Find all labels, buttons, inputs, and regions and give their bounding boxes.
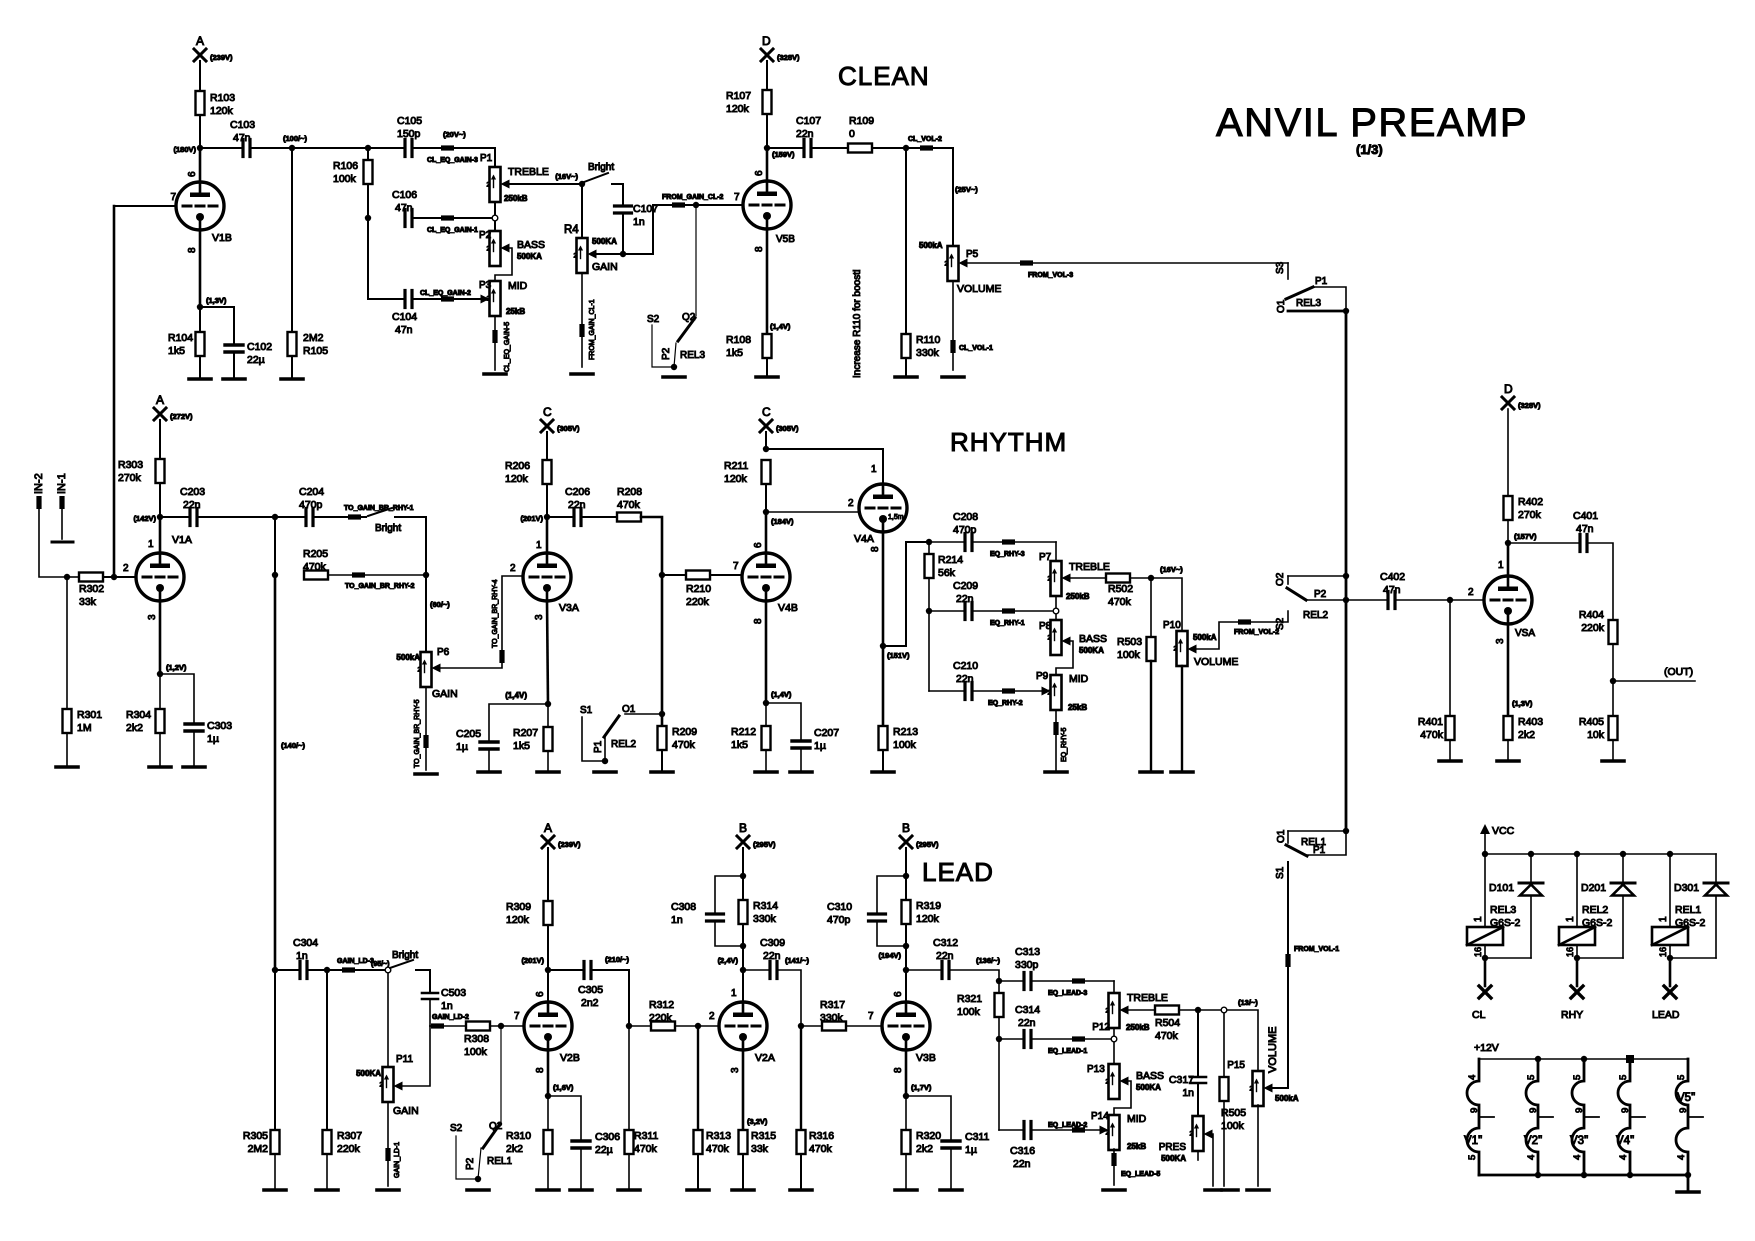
svg-text:2k2: 2k2: [1518, 729, 1535, 741]
svg-text:220k: 220k: [337, 1143, 361, 1155]
resistor R401 470k: [1446, 716, 1455, 740]
wire R504 to P15: [1179, 1010, 1258, 1071]
svg-text:(180V): (180V): [173, 145, 196, 154]
svg-text:6: 6: [753, 542, 764, 548]
potentiometer P6 GAIN 500kA: [421, 652, 432, 687]
ground R307: [316, 1188, 338, 1192]
svg-text:R104: R104: [168, 332, 193, 344]
svg-text:R503: R503: [1117, 636, 1142, 648]
node REL2 O2 on bus: [1343, 573, 1349, 579]
svg-text:REL2: REL2: [1303, 610, 1328, 621]
capacitor C304 1n: [298, 962, 301, 979]
ground R315: [732, 1188, 754, 1192]
wire P3 P1 stack lower rail: [367, 148, 369, 184]
svg-text:(295V): (295V): [753, 840, 776, 849]
svg-text:R321: R321: [957, 993, 982, 1005]
svg-text:47n: 47n: [395, 324, 413, 336]
svg-text:500KA: 500KA: [356, 1069, 381, 1078]
svg-text:470p: 470p: [299, 499, 323, 511]
svg-text:5: 5: [1572, 1075, 1583, 1080]
open node bright (lead): [385, 967, 391, 973]
ground R105: [281, 377, 303, 381]
wire A to R103: [199, 61, 201, 91]
wire R308 to V2B grid: [490, 1025, 524, 1027]
node (1,3V): [197, 304, 203, 310]
ground P6: [415, 772, 437, 776]
node REL3 pole: [1343, 308, 1349, 314]
svg-text:1n: 1n: [671, 914, 683, 926]
node C312 branch (194V): [903, 967, 909, 973]
svg-text:CL_VOL-1: CL_VOL-1: [959, 345, 993, 352]
svg-text:7: 7: [170, 192, 176, 203]
svg-text:(157V): (157V): [1514, 532, 1537, 541]
svg-text:C305: C305: [578, 984, 603, 996]
svg-text:47n: 47n: [1576, 523, 1594, 535]
svg-text:GAIN_LD-3: GAIN_LD-3: [337, 958, 374, 965]
svg-text:2: 2: [1048, 690, 1052, 697]
terminal bar IN-1: [52, 541, 73, 544]
wire pin16 to D201: [1577, 957, 1623, 959]
arrow into P9: [1042, 687, 1051, 696]
node R314 bottom: [740, 943, 746, 949]
svg-text:R307: R307: [337, 1130, 362, 1142]
open node R505 top: [1221, 1007, 1227, 1013]
tube VSA: [1484, 576, 1532, 624]
wire V2A cathode: [742, 1050, 745, 1130]
svg-text:2: 2: [848, 498, 854, 509]
svg-text:1: 1: [148, 539, 154, 550]
wire V3A plate: [546, 517, 549, 553]
wire to P1 top: [494, 148, 496, 167]
svg-text:B: B: [739, 821, 747, 835]
svg-text:500KA: 500KA: [1079, 646, 1104, 655]
svg-text:1µ: 1µ: [207, 733, 219, 745]
svg-text:120k: 120k: [726, 103, 750, 115]
svg-text:22n: 22n: [568, 499, 586, 511]
svg-text:VCC: VCC: [1492, 825, 1515, 837]
svg-text:2: 2: [1468, 587, 1474, 598]
resistor R315 33k: [739, 1130, 748, 1154]
svg-text:2: 2: [123, 563, 129, 574]
svg-text:100k: 100k: [1117, 649, 1141, 661]
svg-text:470k: 470k: [706, 1143, 730, 1155]
svg-text:VOLUME: VOLUME: [1194, 656, 1238, 668]
wire V5B cathode: [766, 229, 769, 334]
capacitor C107 22n: [802, 140, 805, 157]
node (16V~): [579, 181, 585, 187]
svg-text:(140/~): (140/~): [281, 741, 305, 750]
node C317 top: [1195, 1007, 1201, 1013]
ground C102: [223, 377, 245, 381]
node R205 right: [423, 572, 429, 578]
svg-text:R110: R110: [916, 334, 940, 346]
svg-text:4: 4: [1618, 1155, 1629, 1160]
svg-text:C309: C309: [760, 937, 785, 949]
svg-text:2: 2: [510, 563, 516, 574]
VCC arrow: [1484, 832, 1486, 854]
svg-text:220k: 220k: [1581, 622, 1605, 634]
wire FROM_VOL-3 to REL3: [968, 262, 1289, 264]
resistor R208 470k: [581, 516, 617, 518]
svg-text:C503: C503: [441, 987, 466, 999]
svg-text:330k: 330k: [916, 347, 940, 359]
svg-text:C104: C104: [392, 311, 417, 323]
resistor R209 470k: [658, 726, 667, 750]
svg-text:120k: 120k: [210, 105, 234, 117]
svg-text:9: 9: [1469, 1108, 1480, 1113]
svg-text:R214: R214: [938, 554, 963, 566]
node REL3 coil pin16: [1482, 955, 1488, 961]
svg-text:P1: P1: [593, 740, 604, 753]
svg-text:9: 9: [1620, 1108, 1631, 1113]
svg-text:(141/~): (141/~): [785, 956, 809, 965]
bright switch (rhythm): [368, 508, 392, 516]
power node A (top): [194, 49, 206, 61]
svg-text:R209: R209: [672, 726, 697, 738]
svg-text:(272V): (272V): [170, 412, 193, 421]
potentiometer P10 VOLUME 500kA: [1177, 631, 1188, 666]
svg-text:D: D: [1504, 382, 1513, 396]
svg-text:4: 4: [1676, 1155, 1687, 1160]
capacitor C313 330p: [999, 980, 1024, 982]
svg-text:220k: 220k: [686, 596, 710, 608]
diode D301: [1715, 854, 1717, 883]
wire plate node to C107 22n: [767, 147, 804, 149]
wire node to C401: [1508, 542, 1580, 544]
resistor R504 470k: [1155, 1006, 1179, 1015]
svg-text:R404: R404: [1579, 609, 1604, 621]
svg-text:P3: P3: [479, 280, 492, 291]
tube V3B: [882, 1002, 930, 1050]
svg-text:R315: R315: [751, 1130, 776, 1142]
svg-text:BASS: BASS: [1079, 633, 1107, 645]
net tag EQ_LEAD-3: [1031, 980, 1114, 982]
svg-text:P14: P14: [1091, 1111, 1109, 1122]
node (159V): [764, 145, 770, 151]
svg-text:P2: P2: [661, 347, 672, 360]
svg-text:GAIN: GAIN: [432, 688, 458, 700]
wire C317 chain: [1197, 1010, 1199, 1077]
ground P10: [1171, 770, 1193, 774]
svg-text:100k: 100k: [333, 173, 357, 185]
node C309 branch (244V): [740, 967, 746, 973]
wire down to P5: [952, 148, 954, 246]
resistor R211 120k: [762, 460, 771, 484]
net tag TO_GAIN_BR_RHY-1: [313, 516, 366, 518]
wire R208 to corner: [641, 517, 662, 726]
wire R109 to CL_VOL-2 corner: [872, 147, 953, 149]
svg-text:R301: R301: [77, 709, 102, 721]
heater return bus: [1479, 1174, 1688, 1177]
wire R103 to plate node: [199, 115, 201, 148]
svg-text:1n: 1n: [441, 1000, 453, 1012]
svg-text:R504: R504: [1155, 1017, 1180, 1029]
resistor R210 220k: [686, 571, 710, 580]
wire V4B plate: [765, 512, 768, 553]
svg-text:CL_EQ_GAIN-5: CL_EQ_GAIN-5: [504, 322, 511, 372]
wire A to R309: [547, 848, 549, 901]
svg-text:120k: 120k: [724, 473, 748, 485]
svg-text:R108: R108: [726, 334, 751, 346]
wire to tone stack: [883, 542, 929, 646]
resistor R404 220k: [1609, 620, 1618, 644]
capacitor C305 2n2: [548, 969, 584, 971]
svg-text:P13: P13: [1087, 1064, 1105, 1075]
svg-text:S1: S1: [1275, 866, 1286, 879]
svg-text:2: 2: [1190, 1131, 1194, 1138]
svg-text:500kA: 500kA: [1193, 633, 1217, 642]
resistor R503 100k: [1150, 578, 1152, 637]
node REL1 coil pin16: [1667, 955, 1673, 961]
wire B to node: [905, 848, 907, 876]
svg-text:1: 1: [536, 540, 542, 551]
ground R212: [755, 770, 777, 774]
potentiometer P15 VOLUME 500kA: [1253, 1071, 1264, 1106]
wire vertical rail to V1A grid: [113, 206, 116, 577]
svg-text:REL2: REL2: [1582, 904, 1608, 916]
svg-text:R319: R319: [916, 900, 941, 912]
svg-text:8: 8: [870, 546, 881, 552]
wire grid node to V5B: [696, 204, 743, 206]
ground R104: [189, 377, 211, 381]
svg-text:25kB: 25kB: [1068, 703, 1087, 712]
svg-text:C106: C106: [392, 189, 417, 201]
svg-text:2: 2: [1174, 646, 1178, 653]
resistor R310 2k2: [547, 1096, 549, 1130]
svg-text:(16V~): (16V~): [555, 172, 578, 181]
svg-text:Bright: Bright: [588, 162, 614, 173]
svg-text:16: 16: [1473, 947, 1483, 957]
svg-text:C306: C306: [595, 1131, 620, 1143]
svg-text:C: C: [543, 405, 552, 419]
svg-text:R405: R405: [1579, 716, 1604, 728]
svg-text:(201V): (201V): [521, 956, 544, 965]
svg-text:C317: C317: [1169, 1074, 1194, 1086]
svg-text:(328V): (328V): [777, 53, 800, 62]
wire to C205: [489, 704, 548, 742]
svg-text:47n: 47n: [233, 132, 251, 144]
potentiometer P12 TREBLE 250kB: [1109, 993, 1120, 1028]
svg-text:8: 8: [893, 1067, 904, 1073]
wire P10 bottom to ground: [1181, 666, 1183, 772]
resistor R402 270k: [1504, 496, 1513, 520]
resistor R105 2M2: [291, 148, 293, 332]
wire P9 bottom EQ_RHY-5 to ground: [1055, 710, 1057, 772]
svg-text:22n: 22n: [796, 128, 814, 140]
node R401 top: [1447, 597, 1453, 603]
wire down to R311: [628, 1026, 630, 1130]
node V1A grid: [111, 574, 117, 580]
resistor R308 100k: [466, 1022, 490, 1031]
svg-text:(16V~): (16V~): [1160, 565, 1183, 574]
svg-text:(1,3V): (1,3V): [1512, 699, 1533, 708]
wire to V4A plate: [766, 449, 883, 484]
VCC bus: [1485, 853, 1716, 855]
svg-text:250kB: 250kB: [1126, 1023, 1150, 1032]
net tag CL_EQ_GAIN-2: [412, 298, 489, 300]
wire R214 node down to C210: [928, 611, 930, 691]
svg-text:(239V): (239V): [210, 53, 233, 62]
svg-text:R211: R211: [724, 460, 748, 472]
svg-text:470p: 470p: [827, 914, 851, 926]
svg-text:250kB: 250kB: [504, 194, 528, 203]
node (157V): [1505, 540, 1511, 546]
svg-text:500kA: 500kA: [396, 653, 420, 662]
svg-text:LEAD: LEAD: [1652, 1009, 1680, 1021]
svg-text:100k: 100k: [464, 1046, 488, 1058]
svg-text:(1,2V): (1,2V): [166, 663, 187, 672]
svg-text:470p: 470p: [953, 524, 977, 536]
svg-text:O1: O1: [1276, 299, 1287, 313]
wire R107 to plate node: [766, 114, 768, 148]
svg-text:22n: 22n: [1013, 1158, 1031, 1170]
svg-text:REL2: REL2: [611, 739, 636, 750]
open node P1-P2 junction: [494, 202, 496, 231]
svg-text:3: 3: [730, 1067, 741, 1073]
svg-text:2: 2: [1106, 1079, 1110, 1086]
svg-text:C401: C401: [1573, 510, 1598, 522]
svg-text:BASS: BASS: [517, 239, 545, 251]
svg-text:C103: C103: [230, 119, 255, 131]
node OUT: [1610, 678, 1616, 684]
svg-text:(159V): (159V): [772, 150, 795, 159]
wire P1 wiper to bright node: [510, 183, 583, 185]
node P2 grid feed: [620, 251, 626, 257]
svg-text:MID: MID: [508, 280, 528, 292]
svg-text:3: 3: [534, 614, 545, 620]
wire V3B cathode: [905, 1050, 908, 1096]
net tag TO_GAIN_BR_RHY-2: [328, 574, 426, 576]
wire C103 to node 100V: [250, 147, 292, 149]
wire P10 wiper FROM_VOL-2 to REL2: [1197, 611, 1289, 649]
tube V3A: [523, 553, 571, 601]
svg-text:MID: MID: [1069, 673, 1089, 685]
svg-text:(60/~): (60/~): [430, 600, 450, 609]
wire V1A plate: [159, 517, 162, 553]
node R312 left: [626, 1023, 632, 1029]
resistor R312 220k: [629, 1025, 651, 1027]
svg-text:R107: R107: [726, 90, 751, 102]
svg-text:D301: D301: [1674, 882, 1699, 894]
capacitor C314 22n: [999, 1038, 1024, 1040]
svg-text:G6S-2: G6S-2: [1675, 917, 1706, 929]
svg-text:(1,4V): (1,4V): [771, 690, 792, 699]
svg-text:S3: S3: [1275, 261, 1286, 274]
svg-text:0: 0: [849, 128, 855, 140]
svg-text:V5B: V5B: [776, 234, 795, 245]
resistor R502 470k: [1106, 574, 1130, 583]
wire down to C316: [998, 1039, 1000, 1130]
power node A (V2B): [542, 836, 554, 848]
svg-text:C208: C208: [953, 511, 978, 523]
ground R311: [618, 1188, 640, 1192]
ground R401: [1439, 759, 1461, 763]
svg-text:C107: C107: [796, 115, 821, 127]
wire B to node: [742, 848, 744, 876]
svg-text:1µ: 1µ: [814, 740, 826, 752]
ground R403: [1497, 759, 1519, 763]
node REL2 P2 on bus: [1343, 597, 1349, 603]
svg-text:9: 9: [1528, 1108, 1539, 1113]
svg-text:FROM_GAIN_CL-2: FROM_GAIN_CL-2: [662, 194, 724, 201]
svg-text:C209: C209: [953, 580, 978, 592]
node (1,4V) V3A: [545, 701, 551, 707]
resistor R309 120k: [544, 901, 553, 925]
svg-text:7: 7: [868, 1011, 874, 1022]
svg-text:CL_EQ_GAIN-3: CL_EQ_GAIN-3: [427, 157, 478, 164]
node C204 left: [272, 514, 278, 520]
ground C205: [478, 770, 500, 774]
ground R313: [687, 1188, 709, 1192]
capacitor C106 47n: [403, 210, 406, 227]
svg-text:EQ_LEAD-1: EQ_LEAD-1: [1048, 1048, 1087, 1055]
power node C (V4B): [760, 420, 772, 432]
svg-text:R205: R205: [303, 548, 328, 560]
resistor R103 120k: [196, 91, 205, 115]
svg-text:FROM_GAIN_CL-1: FROM_GAIN_CL-1: [589, 299, 596, 360]
wire R505 chain: [1223, 1013, 1225, 1077]
svg-text:RHYTHM: RHYTHM: [950, 427, 1067, 457]
net tag EQ_RHY-2: [972, 690, 1044, 692]
svg-text:(305V): (305V): [776, 424, 799, 433]
svg-text:REL3: REL3: [1296, 298, 1321, 309]
svg-text:(1,7V): (1,7V): [911, 1083, 932, 1092]
svg-text:V3B: V3B: [916, 1052, 936, 1064]
capacitor C105 150p: [403, 140, 406, 157]
svg-text:C203: C203: [180, 486, 205, 498]
wire P7 wiper to R502: [1071, 577, 1107, 579]
svg-text:REL3: REL3: [680, 350, 705, 361]
svg-text:TREBLE: TREBLE: [1069, 561, 1110, 573]
ground R207: [537, 770, 559, 774]
wire P6 wiper TO_GAIN_BR_RHY-4 to V3A grid: [441, 576, 524, 668]
resistor R212 1k5: [765, 703, 767, 726]
svg-text:C308: C308: [671, 901, 696, 913]
svg-text:2k2: 2k2: [126, 722, 143, 734]
resistor R108 1k5: [763, 334, 772, 358]
wire to C311: [906, 1096, 951, 1141]
svg-text:EQ_RHY-5: EQ_RHY-5: [1061, 728, 1068, 762]
ground R110: [895, 375, 917, 379]
svg-text:EQ_LEAD-3: EQ_LEAD-3: [1048, 990, 1087, 997]
resistor R314 330k: [742, 876, 744, 900]
tube V1B: [176, 182, 224, 230]
svg-text:1k5: 1k5: [731, 739, 748, 751]
diode D201: [1622, 854, 1624, 883]
wire GAIN_LD-2 to R308: [430, 1025, 466, 1027]
svg-text:REL1: REL1: [1675, 904, 1701, 916]
wire V1B cathode: [199, 230, 202, 307]
ground P5: [942, 375, 964, 379]
ground P15: [1247, 1188, 1269, 1192]
svg-text:GAIN: GAIN: [393, 1105, 419, 1117]
long wire down to LEAD section: [274, 575, 277, 970]
net tag EQ_RHY-3: [972, 541, 1056, 543]
svg-text:P8: P8: [1039, 621, 1052, 632]
ground REL2: [594, 770, 616, 774]
svg-text:EQ_RHY-1: EQ_RHY-1: [990, 620, 1025, 627]
node (201V): [544, 514, 550, 520]
svg-text:V3": V3": [1570, 1135, 1588, 1147]
svg-text:GAIN: GAIN: [592, 261, 618, 273]
svg-text:1k5: 1k5: [726, 347, 743, 359]
resistor R110 330k: [905, 148, 907, 334]
relay switch REL3 (clean select): [1287, 263, 1289, 279]
wire P11 bottom GAIN_LD-1 to ground: [387, 1102, 389, 1186]
potentiometer P2 BASS 500KA: [490, 231, 501, 266]
svg-text:P2: P2: [1314, 589, 1327, 600]
svg-text:(194V): (194V): [878, 951, 901, 960]
